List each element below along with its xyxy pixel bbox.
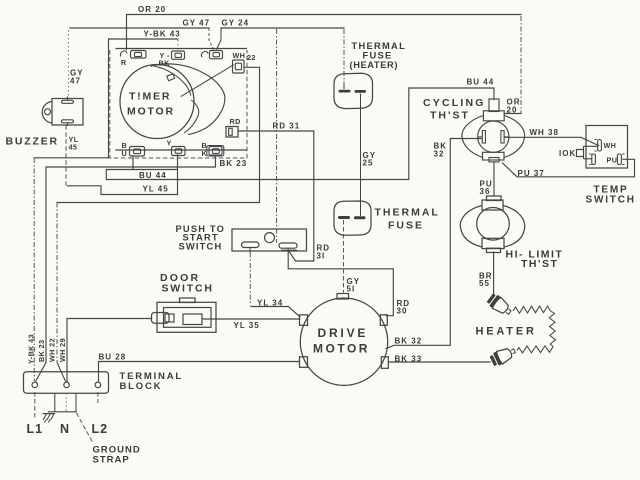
resistor 10K — [559, 146, 598, 159]
wire BK-23 timer to terminal block L1 — [36, 156, 216, 381]
svg-text:BK 32: BK 32 — [395, 337, 423, 346]
svg-text:FUSE: FUSE — [363, 50, 393, 60]
thermal fuse body — [334, 201, 371, 235]
svg-text:20: 20 — [507, 106, 518, 115]
wire YL-34 push-to-start to drive motor — [250, 253, 299, 317]
wire GY-25 thermal fuse heater to thermal fuse — [360, 94, 362, 217]
timer motor circle — [120, 65, 194, 139]
svg-text:WH 29: WH 29 — [58, 338, 67, 362]
timer text — [127, 91, 175, 118]
svg-text:47: 47 — [70, 77, 81, 86]
svg-text:TH'ST: TH'ST — [430, 110, 470, 122]
svg-text:THERMAL: THERMAL — [375, 207, 440, 219]
label BR 55 — [479, 272, 493, 289]
door switch text — [160, 272, 214, 295]
svg-text:Y: Y — [167, 139, 172, 148]
cycling thermostat — [462, 99, 525, 162]
L1 dashed lead — [34, 392, 36, 420]
svg-text:FUSE: FUSE — [388, 220, 424, 232]
svg-text:PU: PU — [607, 156, 618, 165]
wire BK-32 drive motor to cycling thermostat — [386, 139, 481, 349]
svg-text:32: 32 — [434, 150, 445, 159]
timer bottom bus — [116, 149, 247, 151]
svg-text:RD 31: RD 31 — [273, 122, 301, 131]
cycling thermostat text — [423, 97, 486, 122]
timer terminal R — [120, 51, 146, 68]
svg-text:CYCLING: CYCLING — [423, 97, 486, 109]
svg-text:3I: 3I — [317, 252, 326, 261]
svg-text:BU 44: BU 44 — [139, 171, 167, 180]
ground strap — [48, 393, 77, 412]
label BK 32 at cycling thermostat — [434, 142, 448, 159]
wire PU-36 cycling to hi-limit thermostat — [493, 163, 495, 197]
drive motor — [300, 294, 389, 386]
temp switch text — [586, 185, 636, 206]
wire WH-22 timer to terminal block N — [57, 67, 260, 381]
svg-text:BK 23: BK 23 — [37, 340, 46, 362]
svg-text:45: 45 — [69, 143, 78, 152]
buzzer text — [6, 135, 79, 152]
label RD 30 — [397, 299, 411, 316]
wire PU-37 temp switch to cycling thermostat — [503, 159, 635, 177]
wire Y-BK-43 timer to terminal block L1 — [34, 39, 178, 381]
svg-text:SWITCH: SWITCH — [179, 242, 223, 252]
wire YL-35 door switch to drive motor — [202, 318, 300, 320]
svg-text:BU 28: BU 28 — [99, 353, 127, 362]
svg-text:PU 37: PU 37 — [518, 169, 545, 178]
ground strap leader line — [77, 413, 93, 442]
svg-text:22: 22 — [247, 53, 256, 62]
svg-text:SWITCH: SWITCH — [586, 195, 636, 206]
hi-limit thermostat — [460, 196, 524, 253]
svg-text:30: 30 — [397, 307, 408, 316]
wire RD-31 timer to push-to-start switch — [238, 131, 314, 261]
svg-text:MOTOR: MOTOR — [313, 342, 370, 356]
temp switch box — [586, 126, 628, 169]
L2 dashed lead — [97, 392, 99, 403]
timer terminal Y — [167, 139, 186, 156]
wire BU-28 terminal block L2 to drive motor — [99, 362, 300, 382]
door switch — [152, 298, 217, 332]
push-to-start text — [176, 224, 226, 252]
svg-text:RD: RD — [230, 117, 241, 126]
svg-text:K: K — [202, 149, 208, 158]
svg-text:Y-BK 43: Y-BK 43 — [144, 30, 181, 39]
timer top bus — [116, 48, 247, 50]
thermal fuse heater text — [350, 41, 407, 70]
svg-text:STRAP: STRAP — [93, 454, 130, 465]
heater element zigzag — [513, 306, 556, 353]
svg-text:MOTOR: MOTOR — [127, 106, 175, 118]
label RD 31 second — [317, 244, 331, 261]
svg-text:SWITCH: SWITCH — [162, 282, 214, 294]
timer terminal BU — [122, 141, 145, 158]
svg-text:(HEATER): (HEATER) — [350, 60, 399, 70]
svg-text:L2: L2 — [92, 422, 109, 436]
heater top connector — [486, 292, 514, 318]
svg-text:GY 47: GY 47 — [183, 19, 211, 28]
svg-text:BK 23: BK 23 — [220, 159, 248, 168]
timer terminal WH-22 — [233, 51, 256, 73]
wire YL-45 timer Y terminal to buzzer — [66, 125, 178, 195]
label GY 51 — [347, 277, 361, 294]
label OR 20 at cycling thermostat — [507, 98, 521, 115]
svg-text:OR 20: OR 20 — [138, 5, 166, 14]
heater bottom connector — [489, 344, 518, 367]
svg-text:BU 44: BU 44 — [467, 78, 495, 87]
timer dashed enclosure — [110, 50, 247, 158]
thermal fuse heater body — [334, 73, 373, 108]
wire RD-30 push-to-start to drive motor — [288, 251, 393, 316]
wire BR-55 hi-limit thermostat to heater — [493, 252, 495, 295]
wire BU-44 timer to cycling thermostat — [106, 88, 494, 180]
wire WH-29 door switch to terminal block N — [67, 319, 152, 382]
svg-text:T!MER: T!MER — [129, 91, 171, 103]
drive motor text — [313, 326, 370, 356]
svg-text:R: R — [121, 58, 127, 67]
svg-text:TH'ST: TH'ST — [521, 258, 558, 270]
timer terminal BK — [202, 141, 224, 158]
wire GY-24 timer to thermal fuse heater — [217, 28, 345, 89]
svg-text:N: N — [60, 422, 69, 436]
svg-text:BUZZER: BUZZER — [6, 136, 59, 148]
timer terminal GY junction — [201, 51, 222, 59]
svg-text:WH 22: WH 22 — [48, 338, 57, 362]
wire OR-20 from timer R terminal to cycling thermostat — [127, 15, 522, 114]
svg-text:WH: WH — [233, 51, 246, 60]
wire GY-47 timer to buzzer — [69, 28, 214, 99]
push-to-start switch — [232, 229, 307, 253]
label GY 25 — [363, 151, 377, 168]
svg-text:HEATER: HEATER — [476, 325, 537, 337]
svg-text:U: U — [122, 149, 128, 158]
terminal block — [24, 372, 109, 393]
wire GY-51 thermal fuse to drive motor — [343, 220, 345, 293]
timer terminal RD — [226, 117, 241, 137]
svg-text:WH 38: WH 38 — [530, 128, 559, 137]
wire WH-38 cycling thermostat to temp switch — [505, 137, 599, 145]
wire GY-24 branch to push-to-start switch (dash-dot) — [276, 29, 278, 243]
svg-text:YL 35: YL 35 — [234, 321, 260, 330]
label GY 47 at buzzer — [70, 69, 84, 86]
svg-text:Y-BK 43: Y-BK 43 — [27, 334, 36, 364]
svg-text:55: 55 — [479, 279, 490, 288]
svg-text:5I: 5I — [347, 285, 356, 294]
svg-text:WH: WH — [604, 141, 617, 150]
svg-text:YL 34: YL 34 — [257, 299, 283, 308]
svg-text:25: 25 — [363, 159, 374, 168]
svg-text:BK: BK — [159, 59, 171, 68]
svg-text:THERMAL: THERMAL — [352, 41, 407, 51]
svg-text:GY 24: GY 24 — [222, 19, 250, 28]
svg-text:L1: L1 — [27, 422, 44, 436]
svg-text:YL 45: YL 45 — [143, 185, 169, 194]
hi-limit thermostat text — [506, 249, 564, 270]
label PU 36 — [480, 180, 493, 197]
svg-text:36: 36 — [480, 187, 491, 196]
svg-text:IOK: IOK — [559, 149, 576, 158]
timer terminal Y-BK — [159, 51, 185, 68]
wire BK-33 drive motor to heater — [389, 361, 491, 363]
timer cam profile — [151, 64, 234, 135]
terminal block text — [120, 371, 183, 392]
svg-text:BK 33: BK 33 — [395, 355, 423, 364]
svg-text:BLOCK: BLOCK — [120, 381, 163, 392]
ground strap text — [93, 444, 141, 465]
thermal fuse text — [375, 207, 440, 232]
svg-text:DRIVE: DRIVE — [318, 326, 369, 340]
buzzer — [42, 97, 83, 127]
ground symbol — [43, 414, 56, 423]
